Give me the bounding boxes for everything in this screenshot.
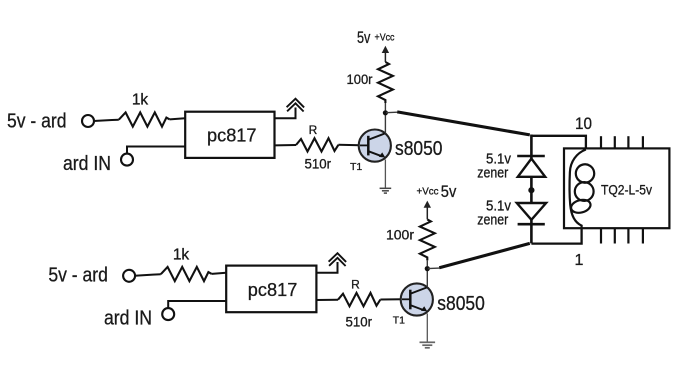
svg-text:s8050: s8050 <box>437 292 485 315</box>
wire node to diagonal (top) <box>386 111 397 114</box>
diagonal wire to relay bottom <box>439 243 530 267</box>
wire 510r to T1 base <box>338 144 360 147</box>
terminal J1 (5v-ard top) <box>82 115 94 127</box>
svg-text:zener: zener <box>477 164 508 181</box>
Vcc arrow (top) <box>384 50 386 62</box>
terminal J3 (5v-ard bottom) <box>123 270 135 282</box>
svg-text:1: 1 <box>575 252 584 269</box>
resistor 510r (bottom) <box>338 293 380 306</box>
svg-text:510r: 510r <box>346 314 373 329</box>
wire relay coil to zener bottom <box>531 228 581 243</box>
svg-text:1k: 1k <box>132 92 149 109</box>
wire 510r to T1 base (bottom) <box>380 298 402 300</box>
ground (top) <box>380 188 392 193</box>
resistor R1k (top) <box>119 112 170 126</box>
resistor 510r (top) <box>296 138 338 151</box>
wire emitter to ground (top) <box>384 160 386 188</box>
svg-text:100r: 100r <box>347 71 373 87</box>
svg-text:s8050: s8050 <box>395 137 443 160</box>
zener D1 5.1v (top) <box>517 156 545 177</box>
svg-text:pc817: pc817 <box>207 125 257 146</box>
wire J2 to pc817 <box>127 147 185 155</box>
wire pc817 pin4 to arrow (bottom) <box>316 262 337 273</box>
wire zener top to relay <box>531 136 586 156</box>
relay top pins <box>601 136 643 148</box>
diagonal wire to relay top <box>397 112 530 135</box>
power arrow (bottom pc817) <box>329 253 347 266</box>
resistor 100r (top) <box>378 62 393 103</box>
node dot between zeners <box>528 187 534 193</box>
terminal J2 (ard IN top) <box>121 154 133 166</box>
relay bottom pins <box>601 228 643 243</box>
svg-text:5v: 5v <box>441 183 457 201</box>
svg-text:5v - ard: 5v - ard <box>7 110 67 132</box>
transistor T1 s8050 (top) <box>359 130 391 162</box>
wire pc817 pin4 to arrow <box>275 108 296 119</box>
wire 1k to pc817 (bottom) <box>212 273 226 274</box>
svg-text:T1: T1 <box>350 161 362 173</box>
transistor T1 s8050 (bottom) <box>401 283 433 315</box>
resistor R1k (bottom) <box>161 267 212 281</box>
svg-text:R: R <box>309 123 318 137</box>
svg-text:5v - ard: 5v - ard <box>48 265 108 287</box>
wire 1k to pc817 <box>170 118 185 119</box>
wire collector to node (bottom) <box>426 267 428 288</box>
svg-text:ard IN: ard IN <box>104 308 152 330</box>
wire J4 to pc817 <box>168 301 226 309</box>
node dot bottom collector <box>425 266 430 271</box>
resistor 100r (bottom) <box>420 219 435 260</box>
svg-text:+Vcc: +Vcc <box>417 185 439 197</box>
wire pc817 pin3 to 510r (bottom) <box>316 299 338 301</box>
svg-text:1k: 1k <box>173 247 190 264</box>
wire emitter to ground (bottom) <box>426 313 428 341</box>
node dot top collector <box>383 110 388 115</box>
svg-text:R: R <box>351 277 360 291</box>
relay coil <box>570 150 586 229</box>
ground (bottom) <box>420 342 436 348</box>
power arrow (top pc817) <box>287 99 305 112</box>
svg-text:5v: 5v <box>357 29 371 47</box>
svg-text:T1: T1 <box>393 315 405 327</box>
wire J3 to 1k <box>135 274 161 276</box>
relay K1 TQ2-L-5v box <box>564 148 669 228</box>
svg-text:TQ2-L-5v: TQ2-L-5v <box>601 183 652 198</box>
optocoupler U1 pc817 (top) <box>185 112 274 158</box>
Vcc arrow (bottom) <box>426 205 428 219</box>
svg-text:100r: 100r <box>386 226 414 242</box>
wire node to diagonal (bottom) <box>428 267 440 270</box>
wire collector to node (top) <box>384 113 386 134</box>
svg-text:10: 10 <box>575 115 592 133</box>
wire zener column <box>530 135 533 244</box>
svg-text:zener: zener <box>477 211 508 228</box>
svg-text:+Vcc: +Vcc <box>375 32 395 44</box>
zener D2 5.1v (bottom) <box>517 203 546 224</box>
svg-text:pc817: pc817 <box>248 279 297 300</box>
wire pc817 pin3 to 510r <box>275 144 297 146</box>
svg-text:510r: 510r <box>305 156 332 171</box>
svg-text:ard IN: ard IN <box>63 153 111 175</box>
wire J1 to R 1k <box>94 120 119 121</box>
optocoupler U2 pc817 (bottom) <box>226 266 316 313</box>
terminal J4 (ard IN bottom) <box>162 308 174 320</box>
